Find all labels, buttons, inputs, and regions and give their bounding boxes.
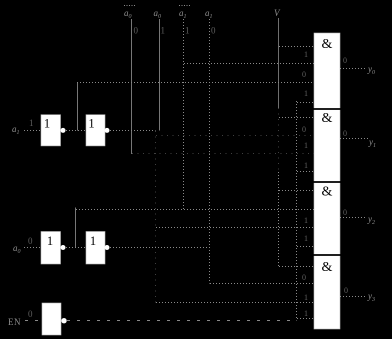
svg-text:1: 1 bbox=[161, 26, 166, 36]
svg-text:&: & bbox=[322, 185, 333, 200]
svg-text:1: 1 bbox=[29, 118, 34, 128]
svg-text:a0: a0 bbox=[154, 8, 162, 20]
svg-text:y2: y2 bbox=[367, 214, 375, 226]
svg-text:1: 1 bbox=[304, 141, 308, 150]
svg-text:1: 1 bbox=[185, 26, 190, 36]
svg-text:EN: EN bbox=[8, 317, 21, 327]
svg-text:1: 1 bbox=[304, 50, 308, 59]
svg-text:y3: y3 bbox=[367, 291, 375, 303]
svg-text:1: 1 bbox=[304, 234, 308, 243]
svg-text:1: 1 bbox=[304, 293, 308, 302]
svg-text:y1: y1 bbox=[368, 137, 376, 149]
svg-text:1: 1 bbox=[304, 161, 308, 170]
svg-text:0: 0 bbox=[343, 56, 347, 65]
svg-text:a0: a0 bbox=[124, 8, 132, 20]
svg-text:V: V bbox=[274, 8, 281, 18]
svg-text:1: 1 bbox=[88, 117, 94, 131]
svg-text:0: 0 bbox=[302, 125, 306, 134]
svg-text:1: 1 bbox=[47, 234, 53, 248]
svg-text:0: 0 bbox=[211, 26, 216, 36]
svg-text:1: 1 bbox=[304, 89, 308, 98]
svg-text:1: 1 bbox=[304, 216, 308, 225]
svg-text:0: 0 bbox=[343, 129, 347, 138]
svg-text:a1: a1 bbox=[205, 8, 213, 20]
svg-text:1: 1 bbox=[304, 309, 308, 318]
svg-text:0: 0 bbox=[344, 286, 348, 295]
svg-text:&: & bbox=[322, 37, 333, 52]
svg-text:0: 0 bbox=[302, 273, 306, 282]
svg-text:0: 0 bbox=[302, 70, 306, 79]
svg-text:0: 0 bbox=[28, 309, 33, 319]
svg-text:0: 0 bbox=[134, 26, 139, 36]
svg-text:0: 0 bbox=[343, 208, 347, 217]
svg-text:0: 0 bbox=[28, 236, 33, 246]
svg-text:&: & bbox=[322, 111, 333, 126]
svg-text:a1: a1 bbox=[179, 8, 187, 20]
svg-text:y0: y0 bbox=[367, 64, 375, 76]
svg-text:1: 1 bbox=[44, 117, 50, 131]
svg-text:&: & bbox=[322, 260, 333, 275]
svg-text:1: 1 bbox=[90, 234, 96, 248]
svg-text:a0: a0 bbox=[13, 243, 21, 255]
svg-text:a1: a1 bbox=[12, 124, 20, 136]
